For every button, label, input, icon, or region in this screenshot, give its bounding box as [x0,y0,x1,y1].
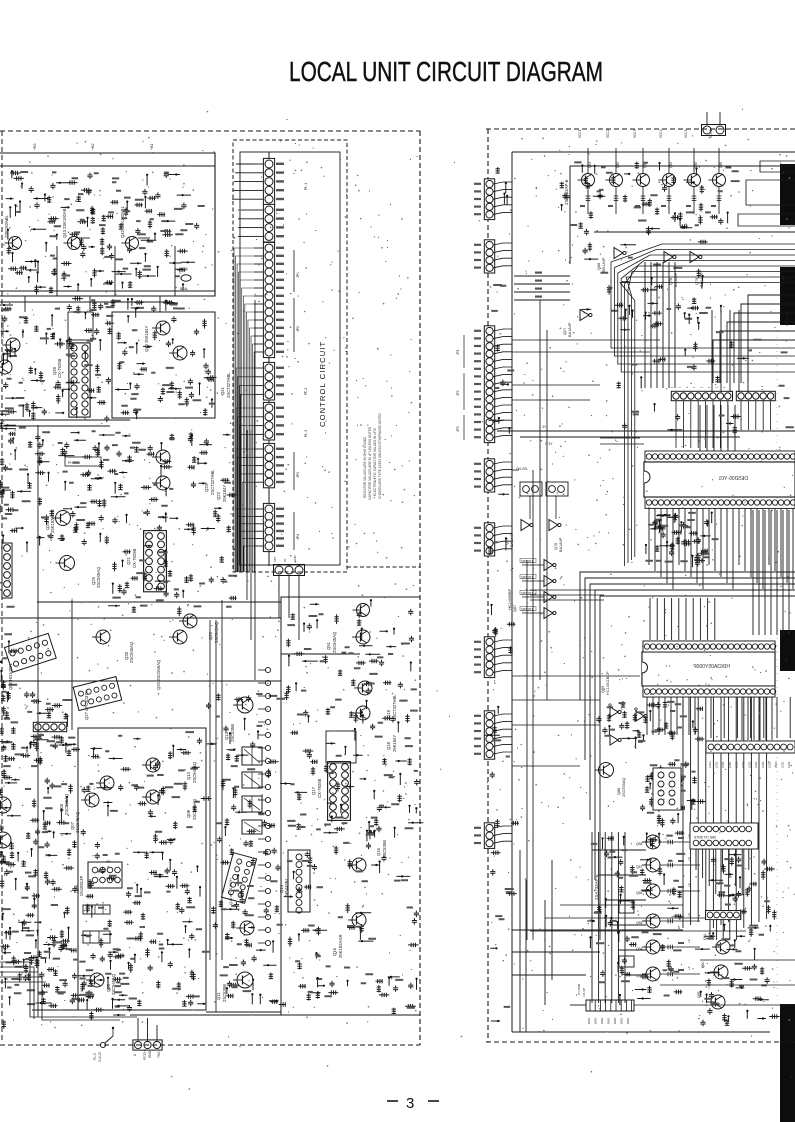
connector left edge [2,543,12,598]
wire upper right steps [748,295,795,383]
inverter Q75 BA1A4P [521,520,530,531]
transistor Q20 [173,630,187,644]
lower box bottom lines [32,1009,123,1011]
connector strip JP6 [671,391,732,400]
IF transformer T11 [242,747,262,765]
connector PL1 group2 [263,204,274,242]
transistor Q25 [60,556,75,571]
scan edge dotted line [776,330,778,1000]
connector PL2 group4 [263,362,274,400]
transistor Q11 [237,972,253,988]
svg-text:Q55: Q55 [636,921,643,925]
control circuit dashed box [233,140,347,572]
misc components Q40 box [115,316,216,419]
misc gates area [596,701,704,749]
misc right-left edge labels [484,167,519,1021]
diode box D11 [619,956,634,967]
wire RF box stubs [24,296,26,312]
wire dashed link to border [347,566,420,568]
FET Q50 [357,604,370,617]
connector strip small 6 [706,911,741,920]
svg-text:LCD1: LCD1 [754,761,758,768]
stage divider lines [56,246,58,296]
svg-text:Q52 HD10551: Q52 HD10551 [8,663,13,690]
IC Q17 CX-7925B [328,762,351,821]
wire chip top feeds [699,405,701,451]
misc components Q22 area [111,432,238,535]
bracket JP right1 [463,335,465,368]
wire chip pin verticals [648,508,650,565]
wire verts control bus [246,430,248,600]
IC Q21 CX-7925B [144,531,167,592]
svg-text:Q22: Q22 [216,491,221,500]
svg-text:BN1A4P: BN1A4P [602,257,606,272]
transistor Q24 [56,511,71,526]
connector right g4 [484,459,494,492]
svg-text:2SC945AQ: 2SC945AQ [332,631,337,653]
svg-text:BA1A4P: BA1A4P [559,537,563,552]
wire +B rail [0,165,215,167]
svg-text:PL 2: PL 2 [304,388,308,395]
wire strip JP6 leads down [675,401,677,448]
svg-text:LCD1: LCD1 [787,761,791,768]
connector strip small6 overlay [706,911,741,920]
svg-text:GND: GND [293,555,297,563]
svg-text:PL-3: PL-3 [93,1053,97,1060]
wire strip S80 leads [695,849,697,870]
misc Q67 area [640,761,706,827]
svg-text:Q26: Q26 [208,631,213,640]
wire fan group1 [236,163,254,165]
lower box mid verts [71,600,73,730]
svg-text:LCD1: LCD1 [715,761,719,768]
lower box left inner [78,728,206,1010]
scan noise left [4,140,418,1037]
svg-text:Q10: Q10 [186,771,191,780]
label connector 4pin [30,734,72,749]
svg-text:BA1A4P: BA1A4P [568,322,572,337]
connector right g5 [484,523,494,556]
svg-text:CX-7925B: CX-7925B [57,358,62,378]
wire bus verticals mid [644,262,646,388]
svg-text:Q21: Q21 [126,556,131,565]
wire right mid horiz links [512,675,640,677]
transistor Q02 [240,921,254,935]
svg-text:Q68: Q68 [597,263,601,270]
connector JP67 overlay [653,768,681,810]
IC Q12 uPC1037H [221,853,256,904]
bracket JP right2 [463,373,465,410]
wire bus top-left pair [0,419,130,421]
svg-text:2SC7327HBL: 2SC7327HBL [226,372,231,398]
inverter Q77 BA1A4P [580,310,589,321]
svg-text:+B2: +B2 [91,144,95,151]
svg-text:25K184Y: 25K184Y [392,735,397,752]
connector right g2 [484,240,494,273]
svg-text:LCD1: LCD1 [728,761,732,768]
transistor Q10 [146,758,160,772]
svg-text:2SA733AP-6: 2SA733AP-6 [564,179,569,205]
connector JP group6 [263,443,274,487]
wire HM TN bundle [514,275,570,277]
svg-text:25K184Y: 25K184Y [222,485,227,502]
right unit dashed border left [487,129,489,1042]
svg-text:GND: GND [607,1018,611,1024]
wire fan groups 4-7 [236,368,254,572]
wire connector chain [268,152,270,566]
transistor Q15 [352,913,366,927]
transistor Q41a [173,346,187,360]
gate Q72 [636,711,644,721]
connector JP group7 [263,503,274,551]
svg-text:4-5-6P: 4-5-6P [582,988,586,997]
RF box outline [0,153,215,296]
wire stepped top right [760,161,795,172]
bracket JP right3 [463,415,465,440]
svg-text:Q57: Q57 [636,865,643,869]
transistor Q04 [0,832,11,848]
svg-text:2SC945AQ: 2SC945AQ [129,641,134,663]
transistor Q43 [68,237,81,250]
svg-text:JP1: JP1 [296,272,300,278]
connector JP group3 [263,242,274,357]
edge tab 2 [780,267,795,325]
svg-text:Q23: Q23 [204,483,209,492]
IC Q39 CX-7925B [69,343,90,417]
IF transformer T14 [242,820,262,834]
gate Q71 [610,707,618,717]
coil L1 [78,237,90,239]
svg-text:VCC5: VCC5 [684,129,688,138]
IC Q70 HD63A05 body overlay [642,652,775,686]
box Q38 [68,312,93,340]
svg-text:8Y: 8Y [283,558,287,562]
RF box inner bottom line [0,290,215,292]
svg-text:THA: THA [157,1051,161,1058]
svg-text:GND: GND [613,1018,617,1024]
svg-text:3-4 LO: 3-4 LO [98,1052,102,1062]
connector stub column [265,667,270,672]
svg-text:LCD1: LCD1 [774,761,778,768]
left page edge components [0,305,19,1029]
wire y654 rail [281,653,360,655]
svg-text:2SC945AQ: 2SC945AQ [622,778,626,797]
svg-text:STN5 T/C S80: STN5 T/C S80 [694,836,716,840]
inverter Q79 BA1A4P [690,252,699,263]
inverter Q68 BN1A4P [614,248,623,259]
wire switch stub [112,1028,114,1036]
svg-text:GND: GND [600,1018,604,1024]
svg-text:GND: GND [148,1050,152,1058]
svg-text:CX-7925B: CX-7925B [317,778,322,798]
svg-text:Q15: Q15 [332,947,337,956]
wire horiz y681 [0,680,281,682]
IC DESD06 body overlay [644,462,795,497]
connector PL4 group5 [263,402,274,440]
transistor Q61b [716,940,730,954]
wire bus bundle left [611,244,795,348]
scan noise right [492,136,793,1036]
svg-text:Q13: Q13 [224,731,229,740]
svg-text:HC14011BCP: HC14011BCP [606,671,610,695]
wire strip JP7 leads down [740,401,742,430]
svg-text:GND: GND [587,1018,591,1024]
svg-text:Q87: Q87 [513,605,517,612]
transistor Q19 [358,681,372,695]
svg-text:Q09: Q09 [186,809,191,818]
wire bus under RF box [0,301,172,303]
svg-text:+B3: +B3 [33,144,37,151]
connector PJ bottom of control [274,565,305,576]
misc components right lower col [280,600,423,1013]
wire horiz bundle y572-596 [580,572,795,700]
right unit dashed border bottom [486,1041,795,1043]
transistor Q08 [100,776,114,790]
connector 4pin PJ [33,722,66,731]
svg-text:Q12 uPC1037H: Q12 uPC1037H [229,878,233,905]
connector bar bottom [586,1000,634,1011]
transistor Q16 [352,858,366,872]
svg-text:DE5D06-Y01: DE5D06-Y01 [718,476,748,482]
svg-text:Q11: Q11 [216,992,221,1000]
svg-text:CAPACITOR VALUES ARE IN uF UNL: CAPACITOR VALUES ARE IN uF UNLESS NOTED [368,426,372,500]
wire VCC rails [570,165,795,167]
svg-text:2SC535B: 2SC535B [0,320,5,338]
svg-text:LCD1: LCD1 [781,761,785,768]
svg-text:Q86: Q86 [617,788,621,795]
IC Q27 uPC1037H [73,677,121,711]
wire control bottom stubs [278,576,280,618]
lower box right [281,597,420,1015]
misc components mid col [206,693,286,1006]
svg-text:Q51: Q51 [326,641,331,650]
svg-text:HC14050BP: HC14050BP [508,588,512,610]
svg-text:VCC3: VCC3 [633,129,637,138]
right unit solid border [511,152,513,1032]
svg-text:2SC945AQ: 2SC945AQ [192,761,197,783]
right unit solid border top [512,151,795,153]
wire vert x38 [37,425,39,1017]
misc components mid-left [0,306,114,422]
misc components left col mid [0,425,117,552]
svg-text:BA1A4P: BA1A4P [510,532,514,547]
transistor Q60b [714,965,728,979]
connector JP67 [653,768,681,810]
IC HD63A05 bottom pin row overlay [643,686,775,697]
diode box D10 [619,901,634,913]
IC Q06 SN1891P [88,862,122,888]
transistor Q13 [237,697,253,713]
svg-text:GND: GND [594,1018,598,1024]
misc right mid cluster [709,855,777,937]
transistor Q09 [146,790,160,804]
IC DESD06 bottom pin row [645,497,795,508]
edge tab 1 [780,164,795,225]
svg-text:Q78: Q78 [669,278,673,285]
connector strip JP7 [736,391,775,400]
wire right bottom horiz [512,929,683,931]
wire fan group2 [238,209,254,211]
svg-text:M5445BL: M5445BL [284,877,289,896]
svg-text:2SC945AQ: 2SC945AQ [214,621,219,643]
svg-text:LCD1: LCD1 [761,761,765,768]
wire bottom bus [0,962,137,1017]
svg-text:C 3Y: C 3Y [545,442,553,446]
wire fan group3 [234,248,254,572]
svg-text:PL 3: PL 3 [304,430,308,437]
svg-text:CONTROL CIRCUIT: CONTROL CIRCUIT [318,341,327,427]
svg-text:CHOKES ARE TYPE 1S353 UNLESS O: CHOKES ARE TYPE 1S353 UNLESS OTHERWISE N… [378,413,382,499]
bracket JP101 [293,250,295,292]
box Q17 region [326,731,356,763]
misc components bottom strip [11,935,142,1020]
right unit solid border bottom [512,1031,770,1033]
wire chip2 pin verticals [646,697,648,735]
left unit dashed border bottom [0,1044,420,1046]
IC Q90 DESD06-Y01 body [644,462,795,497]
svg-text:VCC1: VCC1 [578,129,582,138]
svg-text:JP2: JP2 [296,326,300,332]
wire connector PJ101 leads [137,1018,139,1041]
svg-text:PITCH: PITCH [143,1050,147,1060]
svg-text:JP3: JP3 [456,426,460,432]
ceramic filter CF2 [83,931,110,943]
wire Q53-58 base bus [591,832,593,1003]
misc bottom-right cluster [587,831,684,1005]
svg-text:- 3Y: - 3Y [540,425,547,429]
misc bottom right transistors area [695,933,780,1026]
connector JP76 [546,482,568,496]
connector pin row below chip2 [706,741,795,753]
svg-text:Q58: Q58 [636,842,643,846]
svg-text:LCD1: LCD1 [748,761,752,768]
transistor Q28 [96,630,110,644]
svg-text:CX-7925B: CX-7925B [132,548,137,568]
transistor Q29 [6,338,20,352]
svg-text:Q43 2SK192ABL: Q43 2SK192ABL [62,205,67,238]
transistor Q42 [126,237,139,250]
connector right g1 [484,179,494,220]
svg-text:LCD1: LCD1 [734,761,738,768]
svg-text:Q61: Q61 [703,933,707,940]
svg-text:2SC7327HBL: 2SC7327HBL [210,469,215,495]
svg-text:GND: GND [620,1018,624,1024]
connector pin row below chip2 overlay [706,741,795,753]
wire chip2 top feeds [649,598,651,640]
connector PJ5 top [702,125,726,136]
svg-text:PJ-1500: PJ-1500 [577,983,581,995]
connector right g7 [484,711,494,759]
transistor Q22 [156,476,170,490]
left unit dashed border left [1,131,3,1042]
connector right g3 [484,326,494,443]
svg-text:Q18: Q18 [386,741,391,750]
misc transistor row parts [560,162,728,236]
wire strip6 leads [709,920,711,940]
svg-text:HD63A05Y000P: HD63A05Y000P [693,664,730,670]
wire chip2 right verticals [741,697,743,740]
wire horiz bundle lower [530,589,604,591]
transistor Q30 [0,360,12,374]
svg-text:Q61: Q61 [588,162,592,168]
wire horiz y618 [0,617,281,619]
IC HD63A05 bottom pin row [643,686,775,697]
svg-text:18Y: 18Y [273,557,277,562]
left unit dashed border top [0,130,420,132]
IC Q14 M5445BL [288,850,310,912]
IF transformer T13 [242,796,262,812]
misc below chip cluster [646,513,712,568]
svg-text:25K192AGR: 25K192AGR [338,934,343,958]
bracket JP104 [293,512,295,550]
transistor Q26 [183,614,197,628]
svg-text:3: 3 [406,1095,414,1112]
page number 3 [387,1100,398,1102]
bracket JP102 [293,298,295,352]
svg-text:Q40 25K184Y: Q40 25K184Y [144,325,149,352]
svg-text:Q17: Q17 [311,786,316,795]
wire bottom right horiz [634,1004,795,1006]
IC HD63A05 top pin row [643,641,775,652]
svg-text:Q16: Q16 [376,847,381,856]
ceramic filter CF1 [83,905,110,914]
transistor Q05 [90,973,104,987]
connector PL3 group1 [263,158,274,204]
IC HD63A05 top pin row overlay [643,641,775,652]
svg-text:LOCAL UNIT CIRCUIT DIAGRAM: LOCAL UNIT CIRCUIT DIAGRAM [289,56,603,87]
transistor Q59b [711,995,725,1009]
svg-text:LCD1: LCD1 [708,761,712,768]
connector right g6 [484,637,494,678]
inverter bank Q87 [544,560,553,571]
transistor Q18 [356,706,370,720]
svg-text:Q64: Q64 [669,162,673,168]
edge tab 4 [780,1004,795,1122]
transistor Q07 [85,793,99,807]
connector JP75 [520,482,542,496]
transistors Q61-Q66 row [582,174,595,187]
svg-text:Q20 2SC945AQ: Q20 2SC945AQ [156,659,161,690]
svg-text:VCC2: VCC2 [606,129,610,138]
connector PJ101 [133,1040,162,1050]
svg-text:GND: GND [626,1018,630,1024]
svg-text:H020: H020 [180,267,188,271]
svg-text:2SC535B: 2SC535B [222,984,227,1002]
svg-text:Q27 uPC1037H: Q27 uPC1037H [84,690,89,720]
svg-text:Q65: Q65 [694,162,698,168]
transistor Q86 [599,763,614,778]
wire Q75 stubs [529,496,531,519]
wire right block long verticals [526,560,528,940]
svg-text:+B1: +B1 [150,144,154,151]
svg-text:Q76: Q76 [554,543,558,550]
RF box components [6,171,200,295]
svg-text:SN18913P: SN18913P [79,876,84,896]
misc components inner box [77,738,211,1012]
wire right vertical bus [752,510,754,635]
IC Q52 HD10551 [4,633,56,672]
wire strip below leads [710,697,712,738]
bracket JP103 [293,452,295,490]
connector strip S80 [690,823,758,849]
wire upper right verticals [711,310,713,392]
wire long horiz y602 [37,601,281,603]
wire Q53-58 base links [592,849,646,851]
edge tab 3 [780,630,795,671]
transistor Q44 [9,237,22,250]
svg-text:2SC945AQ: 2SC945AQ [96,566,101,588]
svg-text:Q56: Q56 [636,891,643,895]
